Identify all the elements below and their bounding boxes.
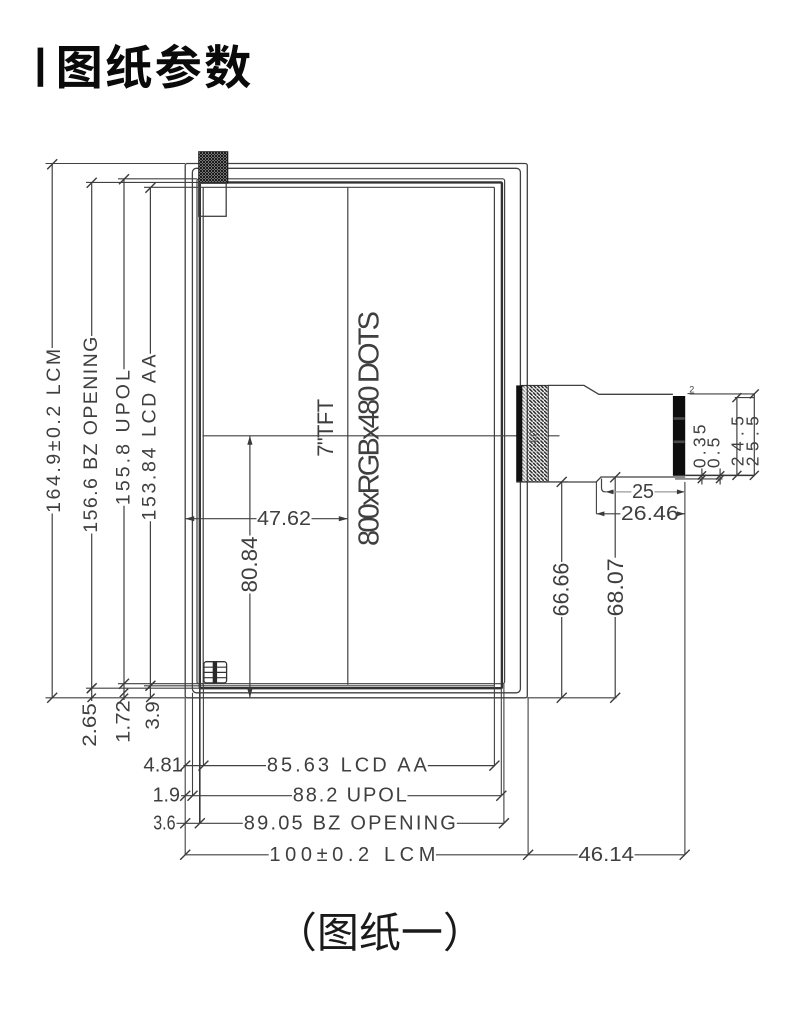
svg-text:3.9: 3.9: [142, 701, 164, 729]
thin film line: [675, 478, 723, 480]
dim 66.66: [547, 481, 568, 483]
dim 25.5: [753, 394, 755, 476]
LCD AA outline: [203, 187, 494, 686]
dim 164.9±0.2 LCM: [46, 163, 186, 165]
dim 26.46: [595, 482, 597, 514]
dim 47.62: [185, 518, 256, 520]
dim 1.72: [123, 684, 125, 700]
svg-text:80.84: 80.84: [237, 537, 262, 593]
dim 85.63 LCD AA: [184, 765, 267, 767]
svg-text:4.81: 4.81: [143, 755, 183, 777]
dim 156.6 BZ OPENING: [86, 181, 200, 183]
LCM bottom extension to right: [527, 697, 616, 699]
svg-text:68.07: 68.07: [603, 558, 628, 616]
svg-text:66.66: 66.66: [549, 563, 574, 617]
title bar I: [38, 48, 44, 87]
dim 25: [602, 479, 606, 492]
svg-text:46.14: 46.14: [578, 844, 634, 866]
LCM outline: [185, 164, 527, 698]
FPC stiffener black bar: [673, 396, 685, 476]
frame inner outline: [192, 168, 520, 693]
dim 88.2 UPOL: [181, 795, 292, 797]
svg-text:1.9: 1.9: [153, 785, 180, 807]
dim 0.5: [719, 469, 721, 485]
svg-text:2: 2: [689, 384, 694, 394]
svg-text:25.5: 25.5: [743, 416, 763, 466]
top tab hatched block: [199, 152, 228, 184]
svg-text:3.6: 3.6: [153, 812, 175, 834]
svg-text:0.5: 0.5: [704, 438, 724, 469]
dim 68.07: [614, 477, 616, 558]
svg-text:2.65: 2.65: [79, 703, 101, 747]
svg-text:1.72: 1.72: [113, 700, 135, 743]
backlight connector block: [204, 662, 227, 683]
dim 80.84: [249, 436, 251, 536]
vertical AA center line: [347, 187, 349, 685]
svg-text:88.2 UPOL: 88.2 UPOL: [293, 785, 407, 807]
side view hatched stack: [522, 385, 549, 481]
top tab lower rect: [199, 183, 227, 216]
svg-text:156.6 BZ OPENING: 156.6 BZ OPENING: [80, 337, 102, 533]
svg-text:4.0: 4.0: [528, 430, 540, 445]
svg-text:89.05 BZ OPENING: 89.05 BZ OPENING: [244, 812, 456, 834]
UPOL outline: [197, 179, 505, 684]
dim 153.84 LCD AA: [144, 186, 203, 188]
side view body outline bottom: [516, 477, 685, 482]
dim 3.9: [149, 686, 151, 699]
svg-text:153.84 LCD AA: 153.84 LCD AA: [139, 355, 161, 521]
svg-text:85.63 LCD AA: 85.63 LCD AA: [267, 755, 428, 777]
dim 89.05 BZ OPENING: [177, 822, 243, 824]
svg-text:25: 25: [632, 481, 654, 503]
side view body outline top: [548, 385, 673, 394]
title text 图纸参数: [59, 46, 99, 89]
dim 0.35: [701, 469, 703, 485]
svg-text:800xRGBx480 DOTS: 800xRGBx480 DOTS: [353, 311, 385, 546]
BZ opening outline (thick): [200, 182, 502, 688]
svg-text:100±0.2 LCM: 100±0.2 LCM: [269, 844, 435, 866]
svg-text:155.8 UPOL: 155.8 UPOL: [113, 370, 135, 505]
dim 155.8 UPOL: [118, 178, 197, 180]
svg-text:164.9±0.2 LCM: 164.9±0.2 LCM: [43, 349, 65, 513]
extension lines below front view: [184, 698, 186, 855]
svg-text:26.46: 26.46: [621, 503, 679, 525]
dim 100±0.2 LCM: [185, 854, 269, 856]
right extension lines: [690, 393, 755, 395]
caption (图纸一): [304, 911, 315, 951]
dim 2.65: [91, 688, 93, 701]
svg-text:47.62: 47.62: [257, 508, 311, 530]
svg-text:7"TFT: 7"TFT: [313, 399, 338, 457]
horizontal AA center line: [203, 435, 560, 437]
dim 24.5: [736, 398, 738, 476]
